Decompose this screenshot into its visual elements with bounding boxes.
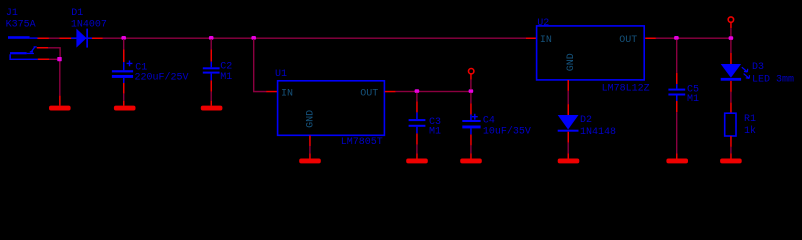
- wire jack switch pin segment: [37, 47, 61, 57]
- wire terminal to C4 vertical: [470, 74, 472, 158]
- junction node C5 tap: [674, 36, 679, 40]
- ground jack: [49, 106, 71, 111]
- diode D1: [71, 8, 107, 48]
- svg-text:IN: IN: [281, 89, 293, 100]
- svg-text:GND: GND: [306, 110, 317, 128]
- svg-text:D1: D1: [71, 8, 83, 19]
- junction node C3 tap: [415, 89, 420, 93]
- svg-text:LM78L12Z: LM78L12Z: [602, 83, 650, 94]
- wire U2 ground vertical: [568, 80, 570, 115]
- wire U1 output horizontal: [385, 91, 471, 93]
- wire C2 vertical: [211, 39, 213, 106]
- svg-text:1N4007: 1N4007: [71, 20, 107, 31]
- svg-text:M1: M1: [220, 72, 232, 83]
- ground U1: [299, 159, 321, 164]
- svg-text:M1: M1: [687, 94, 699, 105]
- svg-text:D2: D2: [580, 115, 592, 126]
- ground C5: [666, 159, 688, 164]
- svg-text:OUT: OUT: [619, 35, 637, 46]
- capacitor C4: [462, 114, 531, 138]
- ground C4: [460, 159, 482, 164]
- junction node C2 tap: [209, 36, 214, 40]
- wire U1 ground vertical: [309, 136, 311, 159]
- svg-text:220uF/25V: 220uF/25V: [135, 71, 189, 83]
- terminal output 12V: [728, 17, 733, 22]
- ground C1: [114, 106, 136, 111]
- ground C3: [406, 159, 428, 164]
- junction jack sleeve node: [57, 57, 61, 61]
- ground D2: [558, 159, 580, 164]
- IC U2 regulator: [537, 18, 650, 94]
- capacitor C3: [409, 112, 441, 137]
- wire R1 to ground: [730, 136, 732, 159]
- junction node LED branch: [729, 36, 734, 40]
- svg-text:U1: U1: [275, 69, 287, 80]
- wire LED to R1: [730, 81, 732, 113]
- LED D3: [721, 62, 794, 86]
- ground C2: [201, 106, 223, 111]
- svg-text:LM7805T: LM7805T: [341, 137, 383, 148]
- terminal output 5V: [469, 69, 474, 74]
- capacitor C2: [203, 62, 232, 83]
- svg-text:LED 3mm: LED 3mm: [752, 75, 794, 86]
- wire jack sleeve segment: [38, 59, 59, 61]
- junction node U1 drop: [251, 36, 256, 40]
- wire net VIN top horizontal: [37, 38, 536, 40]
- ground R1: [720, 159, 742, 164]
- connector J1: [6, 8, 38, 60]
- resistor R1: [725, 113, 756, 137]
- junction node C4 tap: [469, 89, 474, 93]
- svg-text:R1: R1: [744, 114, 756, 125]
- svg-text:D3: D3: [752, 62, 764, 73]
- wire terminal 12V vertical: [730, 23, 732, 37]
- wire C5 vertical: [676, 40, 678, 159]
- wire U1 input drop: [253, 39, 278, 92]
- svg-text:1N4148: 1N4148: [580, 127, 616, 138]
- wire C1 vertical: [123, 39, 125, 106]
- svg-text:OUT: OUT: [360, 89, 378, 100]
- IC U1 regulator: [275, 69, 384, 148]
- capacitor C5: [668, 84, 699, 105]
- svg-text:K375A: K375A: [6, 19, 36, 30]
- svg-text:J1: J1: [6, 8, 18, 19]
- wire jack ground vertical: [59, 61, 61, 106]
- wire LED vertical: [730, 40, 732, 64]
- capacitor C1: [112, 61, 189, 84]
- wire U2 output horizontal: [645, 38, 731, 40]
- svg-text:1k: 1k: [744, 125, 756, 137]
- wire D2 to ground: [568, 132, 570, 159]
- diode D2: [558, 115, 616, 138]
- svg-text:IN: IN: [540, 35, 552, 46]
- svg-text:C4: C4: [483, 116, 495, 127]
- svg-text:U2: U2: [537, 18, 549, 29]
- svg-text:M1: M1: [429, 126, 441, 137]
- svg-text:10uF/35V: 10uF/35V: [483, 125, 531, 137]
- junction node C1 tap: [121, 36, 126, 40]
- wire C3 vertical: [416, 93, 418, 159]
- svg-text:GND: GND: [566, 53, 577, 71]
